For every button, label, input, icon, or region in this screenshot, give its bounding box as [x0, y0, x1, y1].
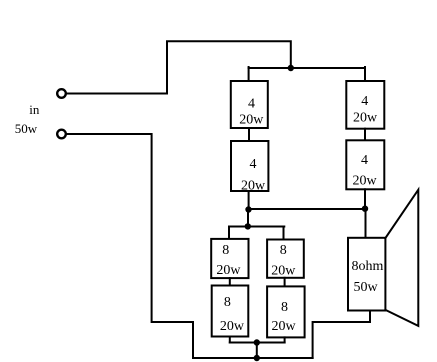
svg-text:8: 8 — [281, 300, 288, 315]
svg-text:20w: 20w — [353, 110, 378, 125]
svg-text:4: 4 — [250, 157, 257, 172]
svg-text:50w: 50w — [15, 121, 38, 136]
input terminal J1 (top) — [57, 89, 66, 98]
resistor R4 — [346, 140, 384, 189]
svg-text:8ohm: 8ohm — [352, 259, 384, 274]
svg-text:8: 8 — [224, 295, 231, 310]
wire: stub down to R7 — [283, 227, 285, 240]
node N4 junction — [245, 223, 251, 229]
svg-text:20w: 20w — [241, 179, 266, 194]
resistor R5 — [211, 239, 248, 278]
resistor R8 — [267, 286, 305, 337]
wire: R4 down to node N3 — [364, 189, 366, 209]
input terminal J2 (bottom) — [57, 130, 66, 139]
wire: R3 to R4 — [364, 129, 366, 141]
svg-text:4: 4 — [361, 153, 368, 168]
svg-text:20w: 20w — [271, 264, 296, 279]
wire: R8 down to bottom branch — [284, 337, 286, 342]
wire: R1 to R2 — [248, 128, 250, 141]
node N6 junction — [254, 355, 260, 361]
wire: middle bus y=209 N2 to N3 — [249, 208, 366, 210]
speaker SP1 cone — [385, 190, 418, 326]
wire: N2 down to node N4 — [247, 210, 249, 227]
node N2 junction — [245, 206, 251, 212]
svg-text:in: in — [29, 102, 40, 117]
svg-text:20w: 20w — [271, 319, 296, 334]
node N1 junction — [288, 65, 294, 71]
svg-text:4: 4 — [248, 97, 255, 112]
svg-text:20w: 20w — [216, 263, 241, 278]
svg-text:20w: 20w — [352, 173, 377, 188]
wire: stub down to R3 — [364, 67, 366, 81]
svg-text:8: 8 — [280, 243, 287, 258]
wire: R5 to R6 — [229, 278, 231, 285]
wire: N3 down to speaker positive — [365, 209, 367, 238]
resistor R1 — [231, 81, 268, 128]
wire: R2 down to node N2 — [248, 191, 250, 209]
wire: bottom branch y=343 joining R6 and R8 — [230, 342, 285, 344]
wire: top bus y=68 between column A and column B — [249, 67, 365, 69]
wire: N5 down to node N6 on bottom bus — [256, 343, 258, 359]
svg-text:8: 8 — [222, 243, 229, 258]
resistor R7 — [267, 240, 304, 278]
resistor R6 — [212, 286, 249, 337]
speaker SP1 driver box — [348, 238, 385, 311]
wire: bottom bus y=358.3 — [193, 357, 313, 359]
svg-text:20w: 20w — [239, 113, 264, 128]
resistor R3 — [346, 81, 384, 129]
node N3 junction — [362, 206, 368, 212]
wire: R6 down to bottom branch — [229, 337, 231, 343]
node N5 junction — [254, 339, 260, 345]
wire: stub down to R1 — [248, 67, 250, 81]
wire: R7 to R8 — [284, 278, 286, 287]
wire: J2 to bottom bus (right, down, right, down) — [67, 134, 194, 358]
wire: branch bus y=226.5 over lower group — [229, 226, 284, 228]
svg-text:20w: 20w — [220, 319, 245, 334]
wire: bottom bus up-step to speaker negative — [313, 311, 370, 359]
resistor R2 — [231, 141, 268, 191]
svg-text:50w: 50w — [353, 280, 378, 295]
wire: stub down to R5 — [228, 227, 230, 240]
svg-text:4: 4 — [361, 94, 368, 109]
wire: J1 to top bus (right, up, right, down to node N1) — [67, 41, 291, 93]
